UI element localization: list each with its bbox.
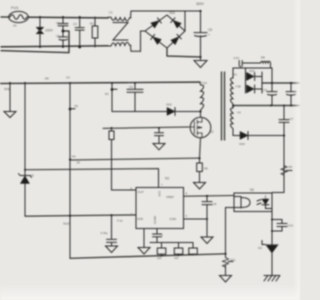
capacitor C14 under IC [153, 229, 164, 243]
svg-text:C1: C1 [56, 21, 60, 25]
svg-text:L1: L1 [109, 11, 113, 15]
svg-text:C4: C4 [66, 76, 70, 80]
transformer T1 primary winding [200, 81, 207, 117]
svg-text:OUT: OUT [138, 190, 145, 194]
node VCC corner [24, 169, 26, 171]
node lower output junction [283, 134, 285, 136]
wire output rail [262, 82, 300, 84]
svg-text:COMP: COMP [153, 215, 157, 224]
wire GND pin line [184, 218, 208, 220]
resistor R8b [174, 243, 183, 261]
wire clamp line [112, 111, 167, 113]
svg-text:VFB: VFB [137, 217, 143, 221]
svg-text:100V: 100V [45, 29, 54, 33]
svg-text:C10: C10 [234, 56, 240, 60]
node tap junction and earth loop wire [1, 30, 69, 53]
transformer T1 secondary bottom winding [231, 108, 242, 136]
svg-text:C6: C6 [129, 85, 133, 89]
svg-text:1A: 1A [234, 73, 238, 77]
node GND pin junction [206, 218, 208, 220]
svg-text:102: 102 [157, 256, 162, 260]
svg-text:350µ: 350µ [4, 87, 11, 91]
node drain junction [199, 110, 201, 112]
svg-text:+: + [208, 33, 210, 37]
wire secondary top lead [233, 68, 272, 78]
svg-text:103: 103 [174, 256, 179, 260]
svg-text:0.33µ: 0.33µ [101, 231, 108, 235]
svg-text:VD4: VD4 [239, 142, 245, 146]
resistor R7 [157, 243, 166, 261]
svg-text:C: C [161, 233, 163, 237]
capacitor C6 clamp [127, 83, 143, 112]
node junctions on rail [9, 82, 136, 84]
svg-text:VCC: VCC [158, 191, 162, 197]
snubber capacitor C10 [234, 56, 261, 68]
fuse FU1 [9, 5, 29, 28]
svg-text:N2: N2 [250, 188, 254, 192]
resistor R11 [223, 254, 236, 276]
wire bridge bottom return [167, 48, 201, 57]
resistor R9 [272, 136, 293, 193]
svg-text:R6: R6 [45, 77, 49, 81]
wire FB line [25, 215, 136, 216]
svg-text:GND: GND [170, 217, 178, 221]
svg-text:VD1: VD1 [169, 11, 175, 15]
svg-text:R3: R3 [105, 92, 109, 96]
diode VD3 dual rectifier [246, 68, 263, 93]
node rail top [199, 10, 201, 12]
svg-text:C2: C2 [56, 34, 60, 38]
resistor R1 [90, 17, 98, 47]
svg-text:N3: N3 [258, 246, 262, 250]
wire comp row [150, 242, 193, 244]
wire VREF pin line [184, 195, 235, 198]
resistor R4 horizontal [72, 155, 80, 165]
transformer T1 secondary top winding [231, 78, 241, 108]
wire gate line [103, 127, 189, 128]
wire CS line [70, 158, 200, 160]
wire AC line bottom [1, 46, 108, 47]
svg-text:R4: R4 [72, 155, 76, 159]
ground IC right [201, 237, 213, 244]
svg-text:R2: R2 [75, 104, 79, 108]
capacitor C4 350u [4, 83, 16, 118]
svg-text:VD2: VD2 [166, 103, 172, 107]
svg-text:V2: V2 [210, 130, 214, 134]
capacitor C9 [101, 215, 118, 252]
snubber resistor R8 [261, 56, 271, 69]
wire source to CS node [200, 138, 201, 158]
diode VD2 [166, 103, 201, 116]
wire right link down [271, 68, 273, 83]
ground bottom left of opto [220, 276, 232, 283]
node output rail junctions [271, 82, 292, 84]
svg-text:V5: V5 [30, 174, 34, 178]
ground IC pin1 [138, 229, 150, 255]
inductor L1 common-mode choke [108, 11, 201, 52]
wire AC line top [1, 16, 108, 19]
svg-text:32µF: 32µF [63, 222, 70, 226]
svg-text:C8: C8 [213, 202, 217, 206]
diode VD4 [233, 132, 284, 147]
ground bulk cap [194, 57, 207, 68]
svg-text:R8: R8 [261, 56, 265, 60]
node FB junctions [69, 214, 113, 217]
svg-text:2A: 2A [13, 24, 17, 28]
capacitor C5 bulk [194, 11, 212, 57]
capacitor C8 [202, 196, 217, 237]
MOSFET V2 [190, 117, 213, 138]
op-amp U1 control IC N1 [131, 177, 188, 229]
svg-text:C13: C13 [288, 224, 294, 228]
zener V5 [19, 174, 35, 184]
resistor R2 vertical branch [66, 76, 79, 259]
svg-text:T1B: T1B [236, 85, 241, 89]
svg-text:C3: C3 [73, 22, 77, 26]
node rail bottom junction [199, 56, 201, 58]
wire bottom rail [70, 254, 226, 258]
capacitor C13 [271, 219, 293, 233]
svg-text:N1: N1 [165, 177, 169, 181]
node bottom rail junctions [161, 253, 227, 257]
svg-text:R1: R1 [90, 22, 94, 26]
wire secondary common rail [233, 105, 300, 107]
svg-text:0.1µ: 0.1µ [117, 219, 123, 223]
capacitor C12 [279, 106, 294, 136]
optocoupler N2 [234, 188, 272, 212]
node CS junctions [69, 157, 201, 161]
svg-text:T1A: T1A [202, 81, 208, 85]
wire VCC line [25, 169, 159, 188]
svg-text:300V: 300V [196, 2, 205, 6]
capacitor C1 [56, 17, 68, 47]
node VREF junction [206, 195, 208, 197]
svg-text:C11: C11 [262, 88, 268, 92]
ground hatched TL431 [264, 276, 280, 282]
ground CS [194, 183, 206, 190]
node junctions on AC lines [39, 16, 81, 48]
capacitor C11 [262, 83, 277, 106]
capacitor C3 [73, 17, 84, 47]
svg-text:R5: R5 [204, 167, 208, 171]
node gate branch junctions [111, 127, 161, 129]
svg-text:R11: R11 [231, 258, 236, 262]
wire opto emitter down [226, 208, 235, 254]
svg-text:C5: C5 [208, 28, 212, 32]
svg-text:VD3: VD3 [249, 69, 255, 73]
resistor R10 [189, 243, 198, 256]
transformer core [222, 72, 225, 140]
resistor R4a on gate vertical [109, 128, 136, 190]
svg-text:VREF: VREF [166, 195, 174, 199]
node common rail junctions [232, 105, 292, 108]
varistor RV1 [36, 17, 53, 47]
resistor R3 clamp [105, 83, 117, 112]
wire left vertical branch [24, 83, 26, 216]
svg-text:R9: R9 [289, 165, 293, 169]
wire opto cathode down [271, 212, 273, 245]
resistor R5 current sense [197, 158, 208, 182]
wire bridge left to AC [141, 31, 146, 52]
capacitor C7 gate to ground [153, 128, 165, 150]
TL431 N3 [258, 241, 279, 276]
svg-text:1R: 1R [77, 161, 80, 165]
svg-text:V4: V4 [237, 111, 241, 115]
capacitor C12out [286, 83, 296, 106]
wire +300V rail [0, 82, 200, 83]
bridge rectifier VD1 [145, 11, 185, 48]
wire bridge right up to +rail [184, 11, 186, 31]
svg-text:FU1: FU1 [11, 5, 19, 10]
